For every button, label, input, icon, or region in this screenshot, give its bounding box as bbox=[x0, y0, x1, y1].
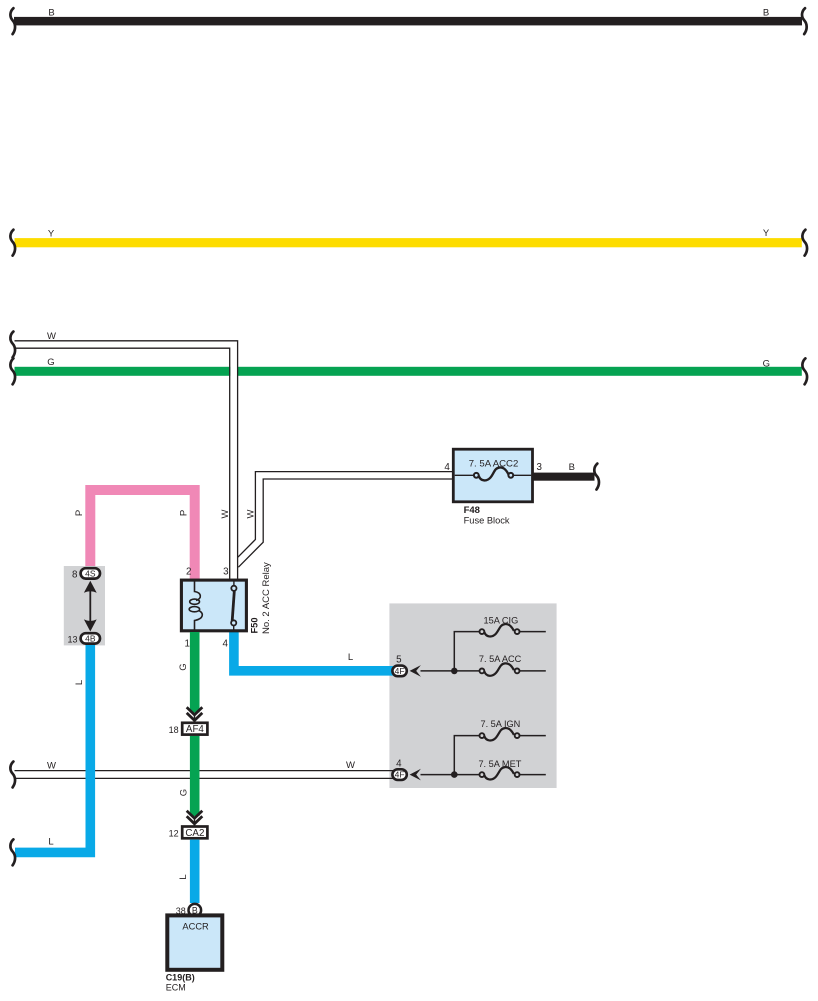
svg-text:18: 18 bbox=[169, 725, 179, 735]
svg-text:L: L bbox=[178, 874, 189, 879]
svg-text:4: 4 bbox=[444, 462, 450, 473]
svg-text:4F: 4F bbox=[395, 666, 405, 676]
connector arrow at 4F pin 4 bbox=[410, 769, 421, 781]
svg-text:ECM: ECM bbox=[166, 982, 186, 992]
ECM box bbox=[167, 915, 222, 969]
fuse row 7.5A MET bbox=[421, 767, 546, 779]
wire B bus (black) bbox=[14, 17, 802, 26]
svg-text:G: G bbox=[179, 789, 190, 796]
connector oval 4S bbox=[81, 568, 100, 578]
junction dot upper bbox=[451, 668, 458, 675]
svg-text:B: B bbox=[763, 7, 769, 18]
svg-text:G: G bbox=[47, 357, 54, 368]
svg-text:W: W bbox=[346, 760, 355, 771]
wire pink P: from 4S up, across, down to relay pin 2 bbox=[90, 490, 194, 579]
gray background of 4S/4B connector pair bbox=[64, 566, 105, 645]
wire L from CA2 to ECM (blue) bbox=[190, 840, 200, 903]
svg-text:C19(B): C19(B) bbox=[166, 973, 195, 983]
svg-text:12: 12 bbox=[169, 829, 179, 839]
connector oval 4F (pin 5) bbox=[392, 666, 406, 677]
gray junction block background bbox=[389, 603, 556, 788]
svg-text:B: B bbox=[48, 7, 54, 18]
break symbol right of G bus bbox=[802, 358, 807, 384]
wire W1 white bus: horizontal then down to relay pin 3 (over G bus) bbox=[230, 349, 237, 579]
break symbol right of F48 B wire bbox=[594, 464, 599, 490]
svg-text:4B: 4B bbox=[85, 633, 96, 643]
break symbol right of B bus bbox=[802, 8, 807, 34]
connector arrow at 4F pin 5 bbox=[410, 665, 421, 677]
wire L from relay pin 4 to 4F pin 5 (blue) bbox=[234, 632, 394, 671]
svg-text:3: 3 bbox=[223, 567, 229, 578]
relay coil bbox=[189, 582, 202, 631]
fuse row 7.5A ACC bbox=[421, 663, 546, 675]
svg-text:ACCR: ACCR bbox=[182, 922, 209, 932]
svg-text:W: W bbox=[47, 331, 56, 342]
arrow chevrons into AF4 bbox=[187, 707, 203, 720]
svg-text:15A CIG: 15A CIG bbox=[484, 615, 519, 625]
svg-text:AF4: AF4 bbox=[186, 724, 205, 735]
svg-text:W: W bbox=[47, 760, 56, 771]
svg-text:8: 8 bbox=[72, 569, 78, 580]
svg-text:4: 4 bbox=[223, 639, 229, 650]
svg-text:1: 1 bbox=[185, 639, 190, 650]
svg-text:W: W bbox=[246, 509, 257, 518]
wire B from F48 (black) bbox=[533, 473, 595, 481]
connector box AF4 bbox=[182, 723, 207, 735]
connector circle B at ECM bbox=[189, 904, 202, 917]
svg-text:P: P bbox=[74, 510, 85, 516]
fuse 7.5A ACC2 symbol bbox=[455, 467, 532, 480]
svg-text:B: B bbox=[569, 462, 575, 473]
junction dot lower bbox=[451, 771, 458, 778]
wire G bus (green) bbox=[15, 367, 802, 376]
svg-text:F50: F50 bbox=[250, 617, 260, 633]
break symbol left of W3 bbox=[10, 762, 15, 788]
svg-text:CA2: CA2 bbox=[185, 828, 204, 839]
svg-text:Y: Y bbox=[48, 228, 55, 239]
fuse block F48 box bbox=[453, 449, 532, 502]
connector oval 4F (pin 4) bbox=[392, 769, 406, 780]
svg-text:7. 5A ACC2: 7. 5A ACC2 bbox=[469, 459, 519, 470]
wire L from 4B down and left (blue) bbox=[15, 644, 90, 852]
svg-text:3: 3 bbox=[537, 462, 543, 473]
fuse row 7.5A IGN bbox=[454, 728, 546, 775]
svg-text:G: G bbox=[178, 663, 189, 670]
svg-text:Y: Y bbox=[763, 228, 770, 239]
arrow chevrons into CA2 bbox=[187, 811, 203, 824]
svg-text:No. 2 ACC Relay: No. 2 ACC Relay bbox=[261, 562, 272, 634]
svg-text:2: 2 bbox=[186, 567, 191, 578]
wire G from AF4 to CA2 (green) bbox=[190, 736, 200, 816]
svg-text:7. 5A IGN: 7. 5A IGN bbox=[480, 719, 520, 729]
svg-text:W: W bbox=[220, 509, 231, 518]
relay F50 box bbox=[181, 580, 246, 631]
svg-text:4F: 4F bbox=[395, 770, 405, 780]
svg-text:L: L bbox=[74, 680, 85, 685]
svg-text:P: P bbox=[178, 510, 189, 516]
break symbol left of L wire bbox=[10, 839, 15, 865]
connector box CA2 bbox=[182, 827, 207, 839]
break symbol right of Y bus bbox=[802, 230, 807, 256]
wire W3 white horizontal to 4F pin 4 bbox=[15, 771, 394, 779]
svg-text:13: 13 bbox=[67, 634, 77, 644]
wire W2 white: from fuse F48 pin 4 left, down, diagonal to relay pin 3 bbox=[238, 472, 453, 568]
svg-text:7. 5A ACC: 7. 5A ACC bbox=[479, 654, 522, 664]
relay switch bbox=[231, 582, 236, 631]
connector oval 4B bbox=[81, 633, 100, 643]
svg-text:5: 5 bbox=[396, 655, 402, 666]
double arrow between 4S and 4B bbox=[89, 585, 91, 628]
break symbol left of G bus bbox=[10, 358, 15, 384]
fuse row 15A CIG bbox=[454, 624, 546, 671]
wire Y bus (yellow) bbox=[15, 238, 802, 247]
svg-text:Fuse Block: Fuse Block bbox=[464, 516, 510, 526]
wire G from relay pin 1 to AF4 (green) bbox=[190, 632, 200, 713]
svg-text:F48: F48 bbox=[464, 505, 480, 516]
svg-text:4S: 4S bbox=[85, 568, 96, 578]
svg-text:L: L bbox=[348, 652, 353, 663]
svg-text:4: 4 bbox=[396, 758, 402, 769]
break symbol left of Y bus bbox=[10, 230, 15, 256]
svg-text:L: L bbox=[48, 837, 53, 848]
break symbol left of W1 bbox=[10, 332, 15, 358]
svg-text:G: G bbox=[763, 358, 770, 369]
svg-text:7. 5A MET: 7. 5A MET bbox=[478, 759, 521, 769]
break symbol left of B bus bbox=[10, 8, 15, 34]
